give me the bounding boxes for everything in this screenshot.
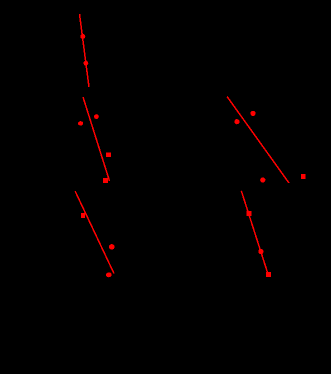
data point P7 (square) [81,213,85,218]
data point P6 (square) [103,178,108,183]
fit line L5 (lower right) [241,191,267,273]
data point Q6 [258,249,263,254]
fit line L3 (lower left) [75,191,114,273]
fit line L2 (second left) [83,97,110,181]
data point P8 [109,244,115,250]
data point Q2 [234,119,239,124]
data point P5 (square) [106,152,111,157]
data point P2 [84,61,89,66]
data point Q5 (square) [247,211,252,216]
data point P3 [94,114,99,119]
data point Q3 [260,177,265,182]
data point P9 [106,272,112,277]
data point Q1 [250,111,255,116]
data point P1 [80,34,85,39]
data point P4 [78,121,83,125]
fit line L1 (top left) [80,14,90,87]
fit line L4 (upper right) [227,97,289,183]
data point Q4 (square) [301,174,306,179]
data point Q7 (square) [266,272,271,277]
